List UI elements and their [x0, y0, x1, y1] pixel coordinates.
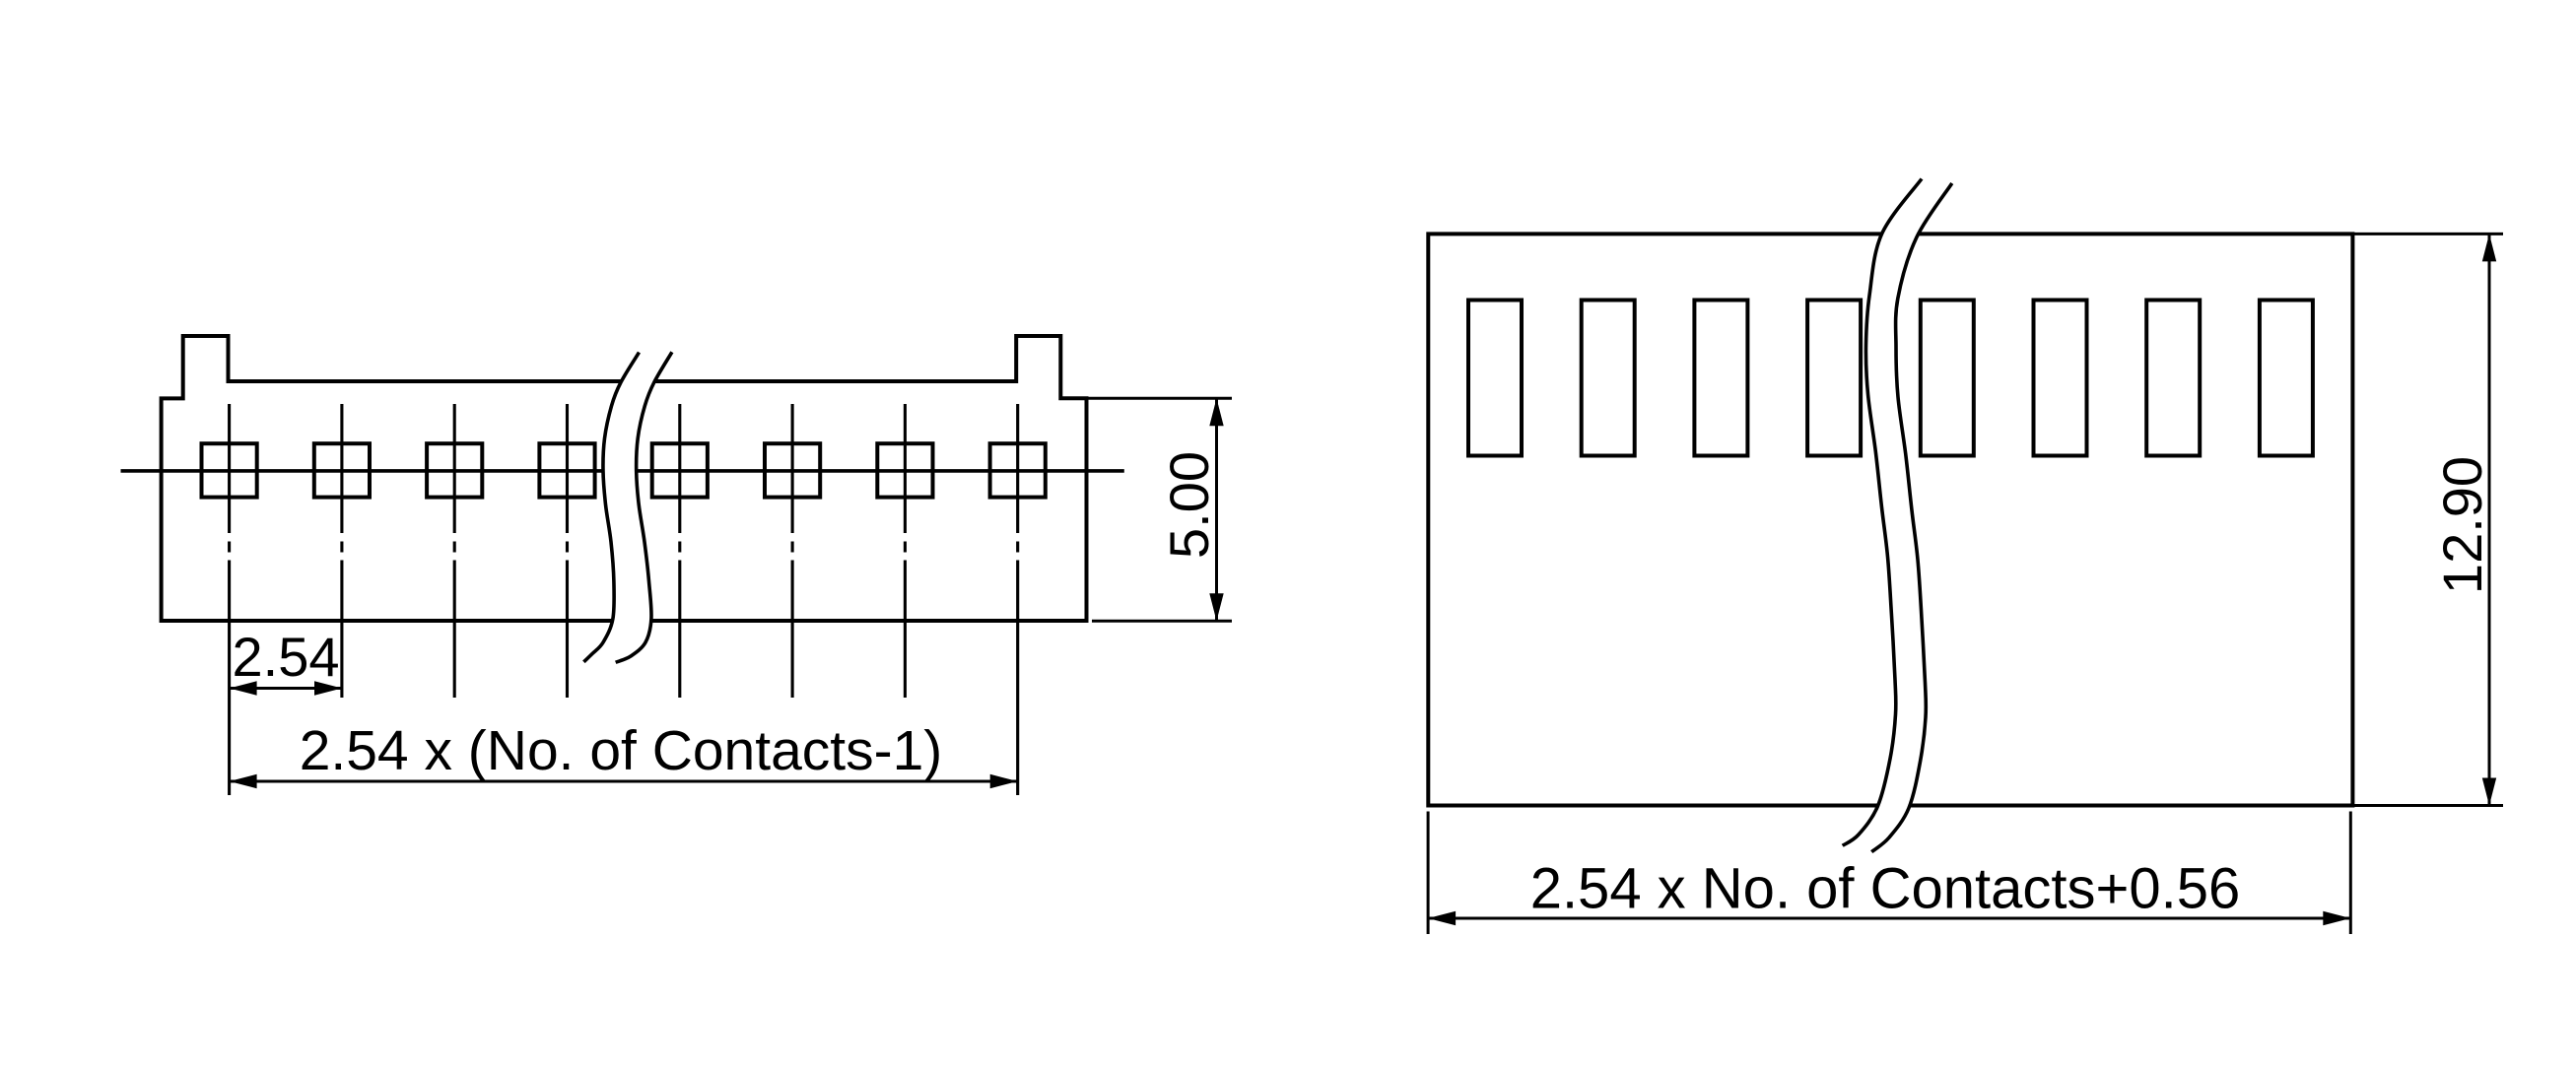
contact 1 square terminal: [202, 443, 257, 497]
contact cavity slot 1: [1468, 301, 1522, 456]
connector housing top-view outline: [1428, 234, 2352, 805]
contact cavity slot 4: [1807, 301, 1861, 456]
horizontal centerline through contacts: [121, 469, 1124, 473]
contact cavity slot 7: [2146, 301, 2200, 456]
contact cavity slot 8: [2260, 301, 2313, 456]
contact 5 square terminal: [652, 443, 708, 497]
contact 4 square terminal: [539, 443, 594, 497]
break symbol (left view): white gap band: [583, 352, 672, 662]
break symbol (left view): S-curves: [583, 352, 672, 662]
contact 5 vertical centerline / extension line: [678, 404, 681, 698]
dimension 2.54 (contact pitch): dimension line with arrows: [230, 687, 342, 690]
contact 2 square terminal: [314, 443, 370, 497]
contact 6 square terminal: [765, 443, 820, 497]
contact 4 vertical centerline / extension line: [566, 404, 569, 698]
contact 6 vertical centerline / extension line: [791, 404, 794, 698]
contact 2 vertical centerline / extension line: [340, 404, 343, 698]
contact cavity slot 2: [1582, 301, 1635, 456]
contact 1 vertical centerline / extension line: [228, 404, 231, 795]
connector housing side-view outline with polarization tabs: [162, 336, 1087, 621]
svg-text:5.00: 5.00: [1158, 451, 1220, 559]
contact 7 vertical centerline / extension line: [904, 404, 907, 698]
contact cavity slot 5: [1921, 301, 1974, 456]
svg-text:2.54: 2.54: [233, 626, 340, 688]
contact 3 vertical centerline / extension line: [453, 404, 456, 698]
dimension 5.00 (housing height): extension lines: [1087, 398, 1233, 621]
svg-text:2.54 x No. of Contacts+0.56: 2.54 x No. of Contacts+0.56: [1530, 857, 2241, 921]
contact 8 vertical centerline / extension line: [1016, 404, 1019, 795]
dimension 12.90 (housing depth): extension lines: [2352, 234, 2503, 805]
svg-text:12.90: 12.90: [2431, 456, 2493, 594]
dimension 12.90: dimension line with arrows: [2488, 234, 2491, 805]
contact cavity slot 3: [1694, 301, 1747, 456]
dimension 2.54 x (No. of Contacts-1): dimension line with arrows: [230, 780, 1018, 783]
contact 3 square terminal: [427, 443, 482, 497]
svg-text:2.54 x (No. of Contacts-1): 2.54 x (No. of Contacts-1): [300, 719, 943, 782]
contact 7 square terminal: [877, 443, 932, 497]
dimension 2.54 x No. of Contacts+0.56: dimension line with arrows: [1428, 917, 2350, 920]
contact cavity slot 6: [2034, 301, 2087, 456]
break symbol (right view): white gap band: [1843, 179, 1952, 852]
dimension 2.54 x No. of Contacts+0.56: extension lines: [1428, 812, 2350, 935]
contact 8 square terminal: [990, 443, 1046, 497]
dimension 5.00: dimension line with arrows: [1215, 398, 1218, 621]
break symbol (right view): S-curves: [1843, 179, 1952, 852]
